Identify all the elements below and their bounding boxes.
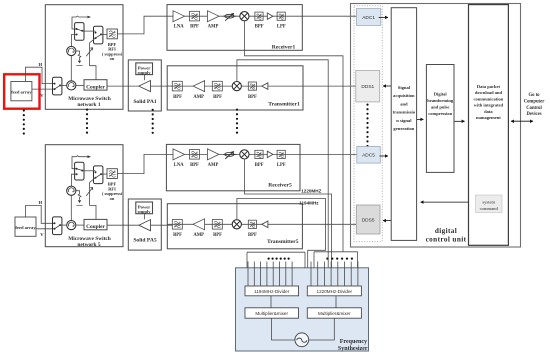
svg-text:Receiver5: Receiver5	[268, 182, 292, 188]
svg-text:Digital: Digital	[434, 92, 448, 97]
svg-text:BPF: BPF	[190, 163, 199, 168]
svg-text:LNA: LNA	[174, 163, 185, 168]
svg-text:management: management	[476, 115, 501, 120]
svg-text:1220MHZ: 1220MHZ	[301, 188, 321, 193]
svg-text:LPF: LPF	[277, 25, 286, 30]
svg-text:download and: download and	[475, 90, 503, 95]
svg-text:BPF: BPF	[248, 233, 257, 238]
svg-text:LNA: LNA	[174, 25, 185, 30]
svg-text:transmissio: transmissio	[393, 110, 416, 115]
svg-text:Signal: Signal	[398, 85, 411, 90]
svg-text:Go to: Go to	[528, 93, 540, 98]
svg-text:BPF: BPF	[255, 25, 264, 30]
svg-text:command: command	[480, 206, 499, 211]
svg-text:Solid PA5: Solid PA5	[133, 237, 157, 243]
svg-text:H: H	[39, 200, 43, 205]
svg-text:Coupler: Coupler	[86, 84, 105, 90]
svg-text:BPF: BPF	[190, 25, 199, 30]
svg-text:Control: Control	[526, 106, 542, 111]
svg-text:beamforming: beamforming	[427, 98, 454, 103]
svg-text:1194MHz: 1194MHz	[299, 200, 319, 205]
svg-text:with integrated: with integrated	[474, 103, 504, 108]
svg-text:Solid PA1: Solid PA1	[133, 99, 157, 105]
svg-text:AMP: AMP	[208, 25, 219, 30]
svg-text:and pulse: and pulse	[431, 105, 449, 110]
svg-text:AMP: AMP	[193, 233, 204, 238]
svg-text:Multiplier&mixer: Multiplier&mixer	[255, 311, 288, 316]
svg-text:Multiplier&mixer: Multiplier&mixer	[318, 311, 351, 316]
svg-text:supply: supply	[138, 70, 152, 75]
svg-text:BPF: BPF	[213, 95, 222, 100]
svg-text:Devices: Devices	[526, 112, 541, 117]
svg-text:network 1: network 1	[77, 102, 101, 108]
svg-text:BPF: BPF	[173, 95, 182, 100]
svg-text:generation: generation	[393, 126, 414, 131]
svg-text:system: system	[482, 199, 495, 204]
svg-text:acquisition: acquisition	[393, 93, 415, 98]
svg-text:Transmitter5: Transmitter5	[267, 239, 299, 245]
svg-text:ADC5: ADC5	[362, 153, 375, 159]
svg-text:compression: compression	[428, 111, 452, 116]
svg-text:data: data	[484, 109, 493, 114]
svg-text:Receiver1: Receiver1	[272, 44, 296, 50]
svg-text:control unit: control unit	[426, 235, 467, 243]
svg-text:and: and	[400, 101, 408, 106]
svg-text:Transmitter1: Transmitter1	[268, 101, 300, 107]
svg-text:feed array: feed array	[15, 225, 36, 230]
svg-text:ADC1: ADC1	[362, 15, 375, 21]
svg-text:Coupler: Coupler	[86, 224, 105, 230]
svg-text:BPF: BPF	[213, 233, 222, 238]
svg-text:Data packet: Data packet	[477, 84, 501, 89]
svg-text:1194MHz-Divider: 1194MHz-Divider	[254, 289, 290, 294]
svg-text:Computer: Computer	[524, 99, 545, 104]
svg-text:DDS1: DDS1	[361, 84, 374, 90]
svg-text:DDS5: DDS5	[362, 217, 375, 223]
svg-text:Frequency: Frequency	[340, 339, 367, 345]
svg-text:on: on	[110, 56, 115, 61]
svg-text:network 5: network 5	[77, 242, 101, 248]
svg-text:AMP: AMP	[193, 95, 204, 100]
svg-text:BPF: BPF	[255, 163, 264, 168]
svg-text:1220MHz-Divider: 1220MHz-Divider	[317, 289, 353, 294]
svg-text:supply: supply	[138, 209, 152, 214]
svg-text:BPF: BPF	[248, 95, 257, 100]
svg-text:n signal: n signal	[396, 118, 412, 123]
svg-text:on: on	[110, 196, 115, 201]
svg-text:feed array: feed array	[11, 90, 32, 95]
svg-text:communication: communication	[474, 96, 504, 101]
svg-text:digital: digital	[435, 227, 457, 235]
svg-text:AMP: AMP	[208, 163, 219, 168]
svg-text:Synthesizer: Synthesizer	[338, 346, 368, 352]
svg-text:BPF: BPF	[173, 233, 182, 238]
svg-text:LPF: LPF	[277, 163, 286, 168]
svg-text:H: H	[39, 62, 43, 67]
